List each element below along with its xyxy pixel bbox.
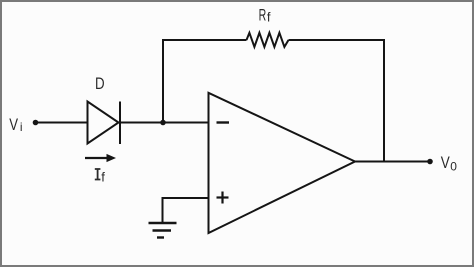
svg-text:V: V — [441, 153, 451, 172]
svg-text:f: f — [267, 10, 271, 25]
node junction dot at inverting input — [160, 120, 166, 126]
diode D — [88, 102, 121, 145]
wire feedback vertical right down to output — [383, 39, 385, 162]
minus input symbol — [217, 121, 230, 123]
wire diode cathode to inverting input — [120, 122, 209, 124]
op-amp U1 — [209, 93, 356, 233]
node output dot — [427, 159, 433, 165]
wire ground drop — [162, 197, 164, 223]
wire feedback vertical from junction — [162, 39, 164, 124]
label Rf — [259, 5, 271, 24]
svg-text:f: f — [101, 170, 105, 185]
svg-text:V: V — [9, 115, 18, 134]
arrow If current direction — [85, 154, 116, 162]
svg-text:R: R — [259, 5, 267, 24]
svg-text:0: 0 — [450, 159, 457, 173]
resistor Rf zigzag — [247, 33, 289, 47]
label V0 — [441, 153, 457, 173]
node Vi input terminal wire — [36, 122, 88, 124]
wire feedback rail left — [162, 39, 247, 41]
svg-text:D: D — [95, 74, 105, 93]
wire non-inverting input — [163, 197, 209, 199]
plus input symbol — [217, 196, 229, 198]
wire output to terminal — [355, 161, 430, 163]
wire feedback rail right — [289, 39, 385, 41]
svg-text:i: i — [20, 120, 23, 134]
label If — [95, 169, 105, 185]
ground — [149, 223, 177, 238]
node input dot — [33, 120, 39, 126]
label Vi — [9, 115, 22, 134]
